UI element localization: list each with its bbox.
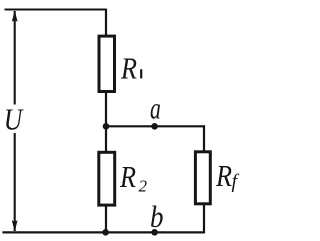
svg-text:R: R — [119, 159, 136, 194]
svg-text:2: 2 — [139, 177, 148, 196]
svg-text:b: b — [150, 199, 164, 234]
svg-text:R: R — [120, 51, 137, 86]
svg-text:R: R — [215, 158, 232, 193]
svg-text:U: U — [4, 102, 25, 137]
svg-text:a: a — [150, 91, 161, 126]
